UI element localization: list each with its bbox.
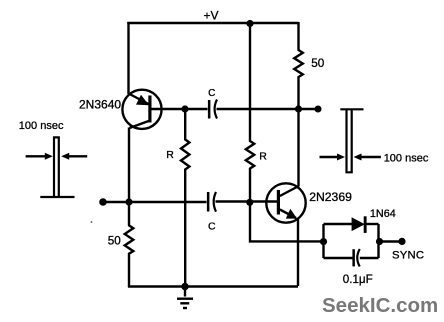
svg-text:50: 50 xyxy=(311,57,325,70)
svg-text:2N2369: 2N2369 xyxy=(309,190,352,204)
svg-text:1N64: 1N64 xyxy=(370,208,396,220)
svg-text:SeekIC.com: SeekIC.com xyxy=(322,294,438,317)
svg-text:50: 50 xyxy=(108,234,122,247)
svg-text:C: C xyxy=(208,88,215,99)
svg-text:C: C xyxy=(208,220,216,232)
svg-text:R: R xyxy=(166,149,174,161)
svg-text:+V: +V xyxy=(204,8,219,22)
svg-text:2N3640: 2N3640 xyxy=(79,98,121,112)
svg-text:R: R xyxy=(259,150,267,162)
svg-text:100 nsec: 100 nsec xyxy=(384,153,429,165)
svg-text:100 nsec: 100 nsec xyxy=(19,120,64,132)
svg-text:0.1μF: 0.1μF xyxy=(343,273,373,286)
svg-text:SYNC: SYNC xyxy=(392,249,424,261)
